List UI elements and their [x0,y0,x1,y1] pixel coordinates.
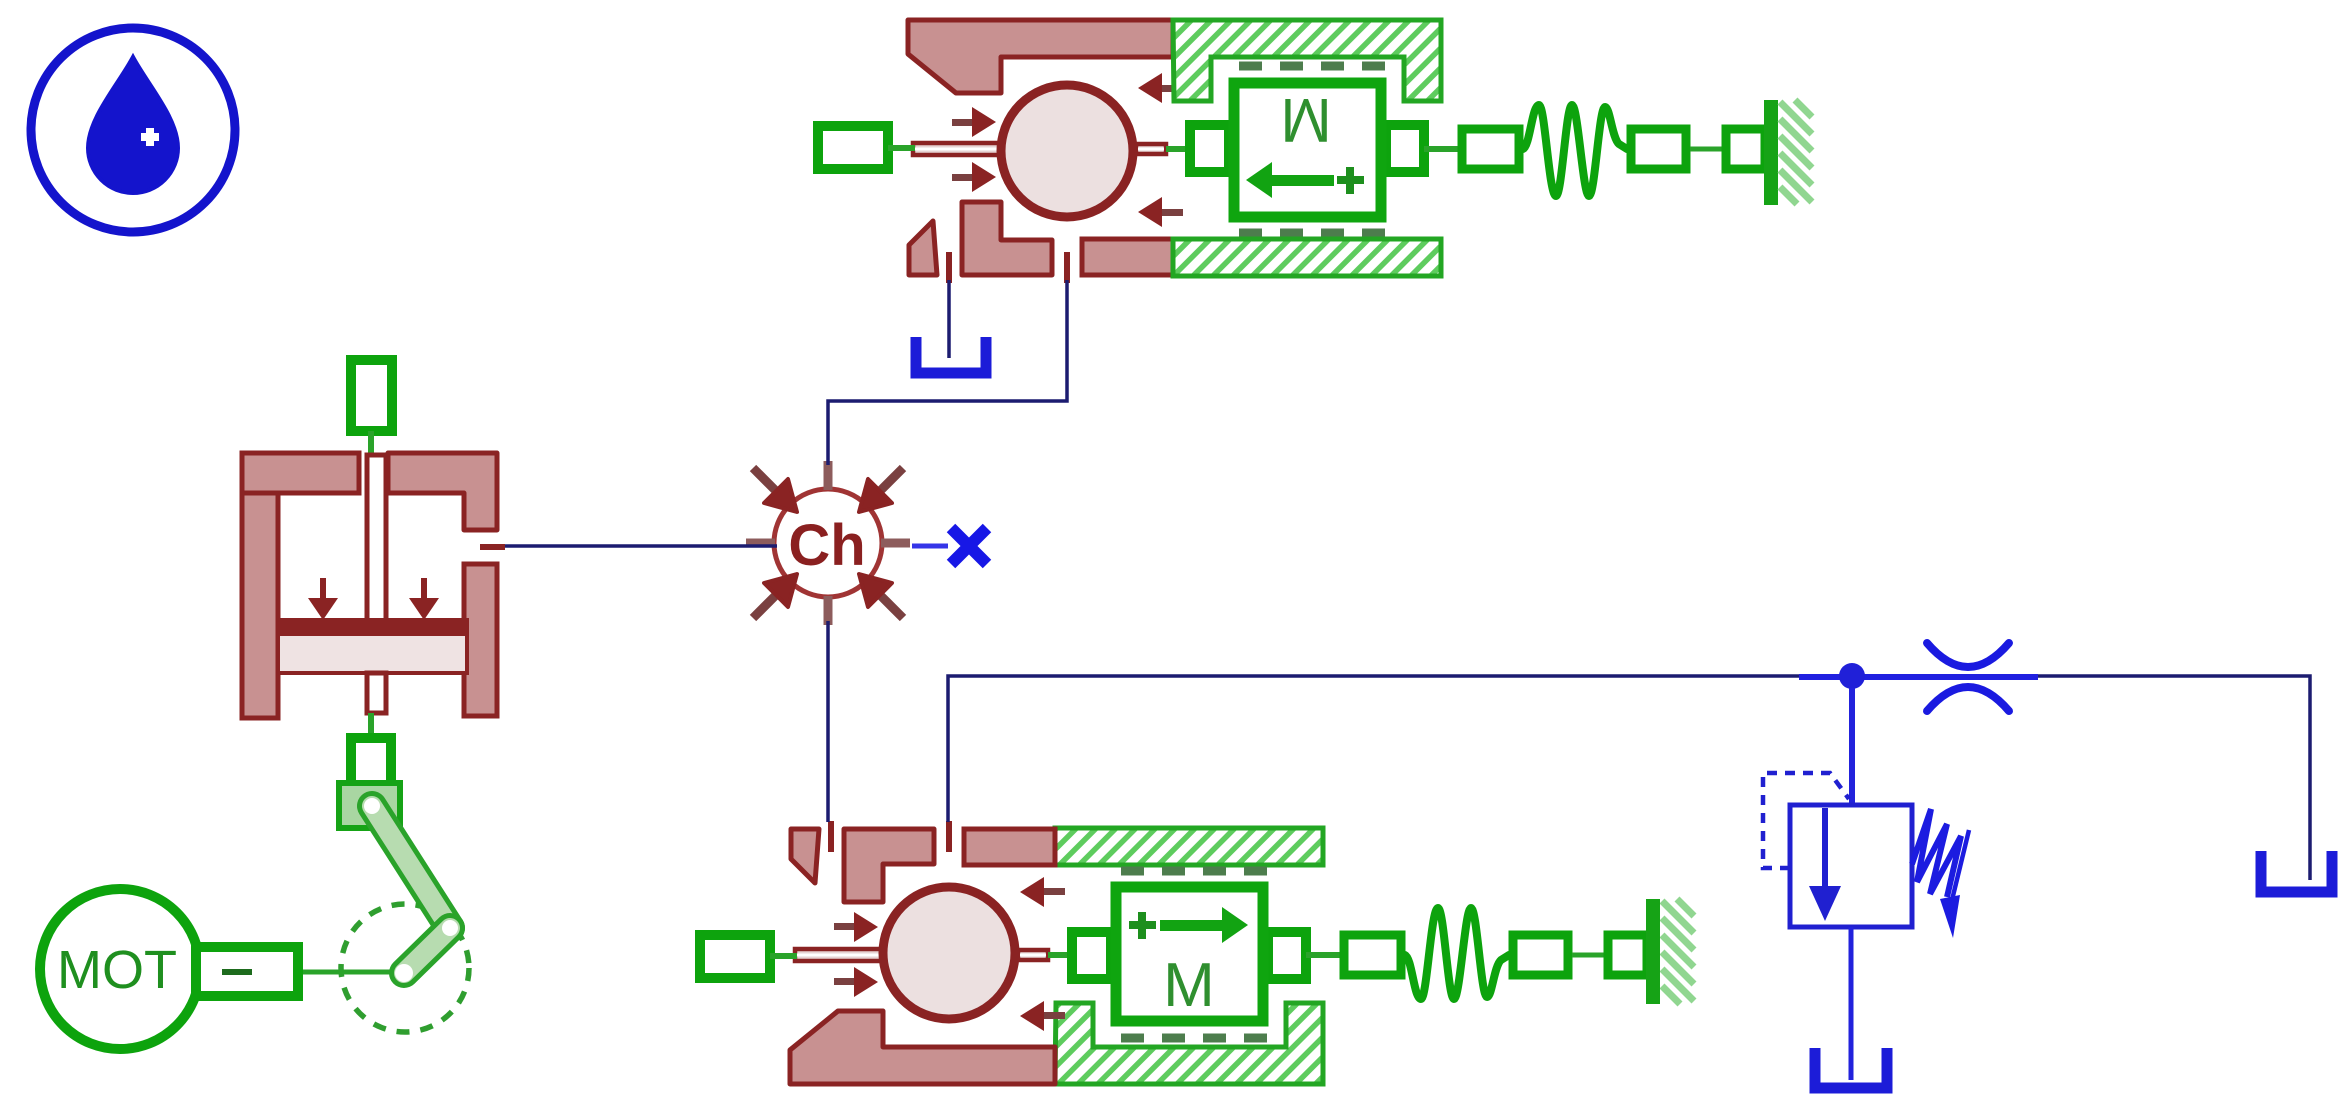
link line [1690,147,1726,152]
piston crown [277,619,468,636]
hydraulic port box left [818,126,888,169]
spring K1 [1523,105,1627,196]
svg-text:M: M [1280,85,1332,154]
mass guide bar above M2 (hatched) [1055,828,1323,865]
tank T1 [916,337,986,373]
wire valve V2 to junction and right tank [948,676,2310,880]
connecting rod [372,806,450,928]
flow arrow upper-right [1160,85,1183,92]
poppet valve and mass assembly A2 (bottom, mirrored) [700,821,1660,1084]
link line [368,713,374,737]
slider block [339,783,400,828]
motor shaft line [298,970,400,975]
link line [888,145,915,151]
crank orbit (dashed circle) [341,904,469,1032]
wire junction to relief valve [1849,688,1855,803]
pump outlet stub [480,544,505,550]
port stub P1 [946,252,952,283]
link line [1166,146,1194,152]
anchor wall [1764,100,1778,205]
anchor wall hatching bottom [1662,899,1694,1004]
mass guide bar below M1 (hatched) [1173,239,1441,276]
cylinder top-left bar [242,453,359,493]
flow arrow lower-right [1160,209,1183,216]
piston pump PP1 [242,360,497,788]
crank link [404,928,450,973]
valve seat L block [962,202,1052,275]
link line [368,431,374,458]
anchor wall hatching top [1780,100,1812,204]
valve seat lower-right bar [1082,239,1173,275]
port stub S [824,596,833,625]
svg-text:Ch: Ch [788,513,865,578]
pin elbow [442,920,458,936]
port stub W [746,539,775,548]
velocity arrow M2 [1129,907,1248,943]
contact dashes top [1239,62,1385,71]
port box A [1462,129,1519,169]
pin center [395,964,413,982]
mass housing top (hatched) [1173,20,1441,101]
cylinder right wall [464,564,497,716]
wire pump to chamber W [503,544,777,548]
cylinder left wall [242,453,278,718]
junction node J1 [1839,663,1865,689]
spring link line [1424,146,1460,152]
inflow arrow SE [880,595,903,618]
piston body [278,620,467,673]
pump port bottom [351,738,391,788]
crank mechanism CR1 [298,783,469,1032]
inflow arrow NW [753,468,776,491]
orifice R1 [1927,643,2009,711]
inflow arrow SW [753,595,776,618]
inflow arrow NE [880,468,903,491]
flow arrow [1822,808,1828,888]
wire chamber N to valve V1 port [828,280,1067,465]
mass block body [1234,83,1381,217]
pressure line highlight [1799,674,2038,680]
mass tab left [1190,125,1229,172]
motor shaft box [196,947,298,996]
fluid properties icon FP1 [31,28,235,232]
pilot line (dashed) [1763,773,1849,868]
pump port top [351,360,392,431]
wire relief valve to tank T3 [1849,927,1854,1080]
piston rod lower [367,673,386,713]
port box C [1726,129,1765,169]
poppet ball [1001,85,1133,217]
relief valve RV1 [1763,773,1969,938]
motor MOT [40,889,298,1049]
cylinder top-right block [388,453,497,530]
flow arrow upper-left [952,119,974,126]
wire chamber S to valve V2 port [826,621,830,822]
mass housing bottom (hatched) [1055,1003,1323,1084]
port stub E [881,539,910,548]
chamber arrow left [320,578,326,600]
mass tab right [1386,125,1424,172]
pin top [364,798,380,814]
valve seat upper block [908,20,1173,93]
shaft mark [222,969,252,975]
valve seat wedge [909,221,937,275]
contact dashes bottom [1239,229,1385,238]
adjust arrow [1952,830,1969,900]
plugged port X [912,528,987,564]
tank T3 (bottom) [1815,1048,1887,1088]
tank T2 (right) [2261,851,2332,892]
port stub N [824,461,833,490]
piston rod upper [367,455,386,622]
wire valve V1 to tank T1 [947,280,951,358]
svg-text:M: M [1163,951,1215,1020]
chamber node Ch [746,461,910,625]
velocity arrow M1 [1246,162,1364,198]
spring [1912,809,1961,897]
poppet rod right [1136,144,1166,154]
port box B [1631,129,1686,169]
port stub P2 [1064,252,1070,283]
poppet valve and mass assembly A1 (top) [818,20,1778,283]
poppet rod left [913,143,1000,155]
chamber arrow right [421,578,427,600]
svg-text:MOT: MOT [57,940,177,1000]
flow arrow lower-left [952,174,974,181]
